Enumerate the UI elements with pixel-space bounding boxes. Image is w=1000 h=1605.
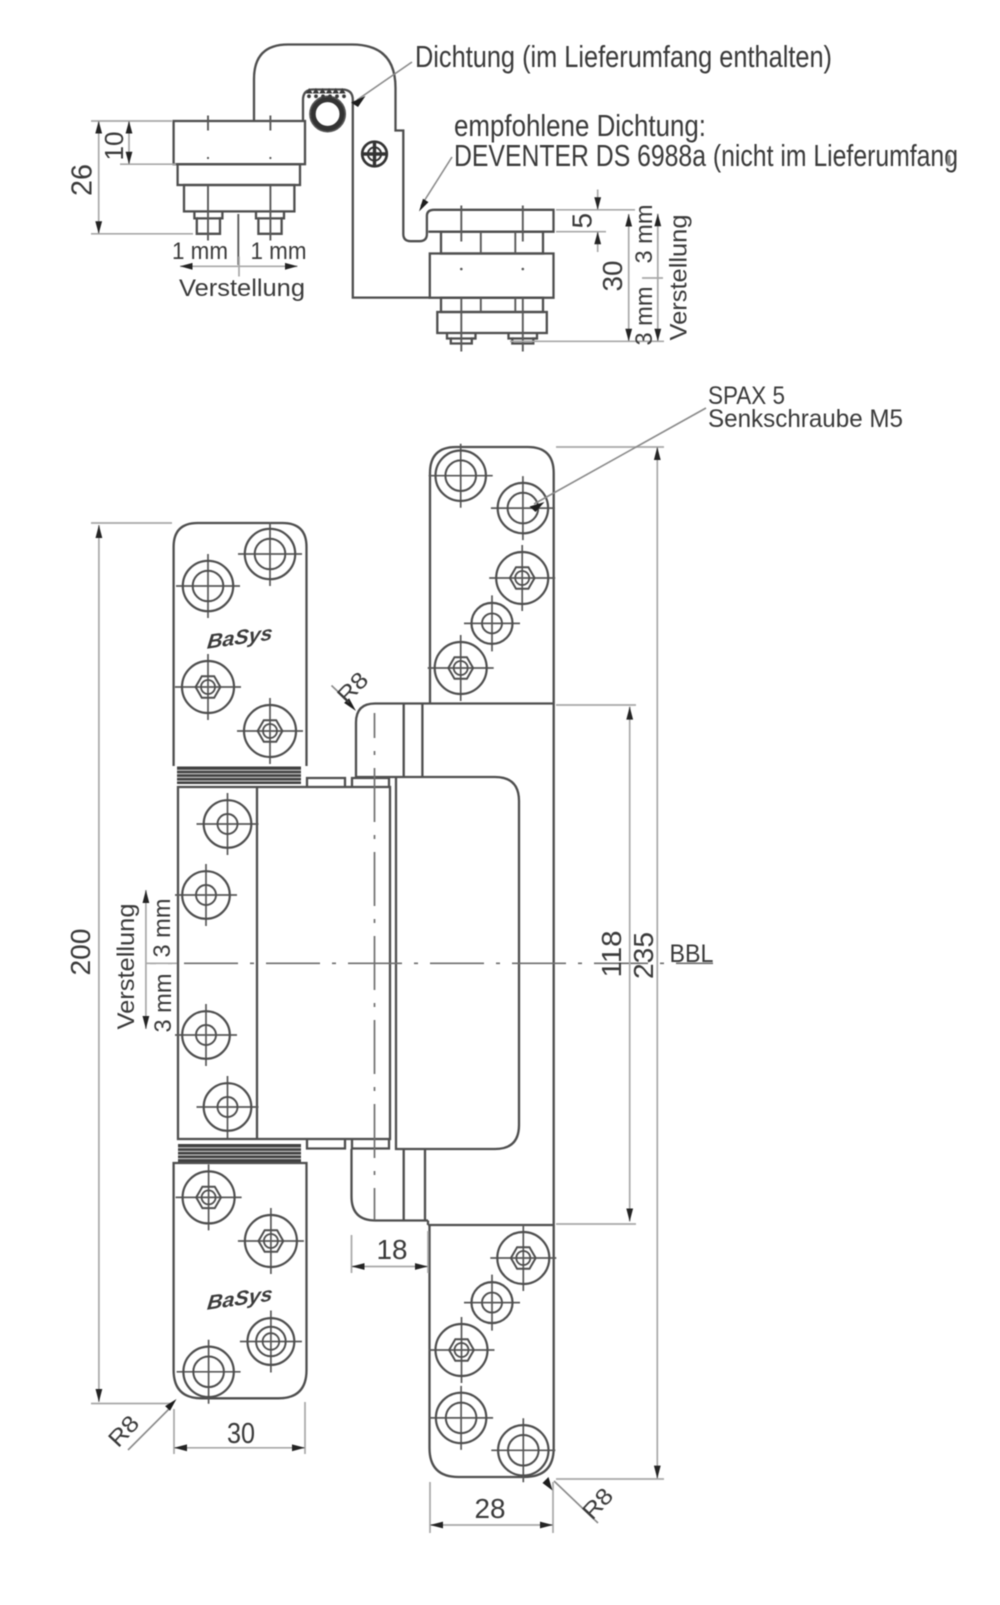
svg-text:R8: R8 xyxy=(577,1483,619,1525)
svg-text:Verstellung: Verstellung xyxy=(179,275,305,302)
svg-text:235: 235 xyxy=(628,932,659,979)
svg-text:3 mm: 3 mm xyxy=(631,287,658,346)
svg-text:1 mm: 1 mm xyxy=(172,238,228,265)
svg-text:Verstellung: Verstellung xyxy=(666,215,693,341)
svg-text:28: 28 xyxy=(475,1493,506,1524)
svg-text:200: 200 xyxy=(65,929,96,976)
svg-text:118: 118 xyxy=(596,931,627,978)
svg-text:3 mm: 3 mm xyxy=(150,974,177,1033)
svg-text:R8: R8 xyxy=(332,667,374,709)
svg-text:BBL: BBL xyxy=(670,940,714,968)
svg-text:3 mm: 3 mm xyxy=(631,205,658,264)
svg-text:30: 30 xyxy=(597,261,628,292)
svg-text:DEVENTER DS 6988a (nicht im Li: DEVENTER DS 6988a (nicht im Lieferumfang xyxy=(454,138,958,173)
svg-text:R8: R8 xyxy=(103,1410,145,1452)
svg-text:5: 5 xyxy=(567,213,598,229)
svg-text:BaSys: BaSys xyxy=(206,622,274,653)
svg-text:Verstellung: Verstellung xyxy=(113,904,140,1030)
svg-text:1 mm: 1 mm xyxy=(251,238,307,265)
svg-text:Senkschraube M5: Senkschraube M5 xyxy=(708,405,903,433)
svg-text:3 mm: 3 mm xyxy=(149,899,176,958)
svg-text:30: 30 xyxy=(227,1418,255,1450)
svg-text:18: 18 xyxy=(377,1234,408,1265)
svg-text:Dichtung (im Lieferumfang enth: Dichtung (im Lieferumfang enthalten) xyxy=(415,39,832,74)
svg-text:26: 26 xyxy=(67,164,99,196)
svg-text:10: 10 xyxy=(99,132,129,161)
svg-text:BaSys: BaSys xyxy=(206,1283,274,1314)
